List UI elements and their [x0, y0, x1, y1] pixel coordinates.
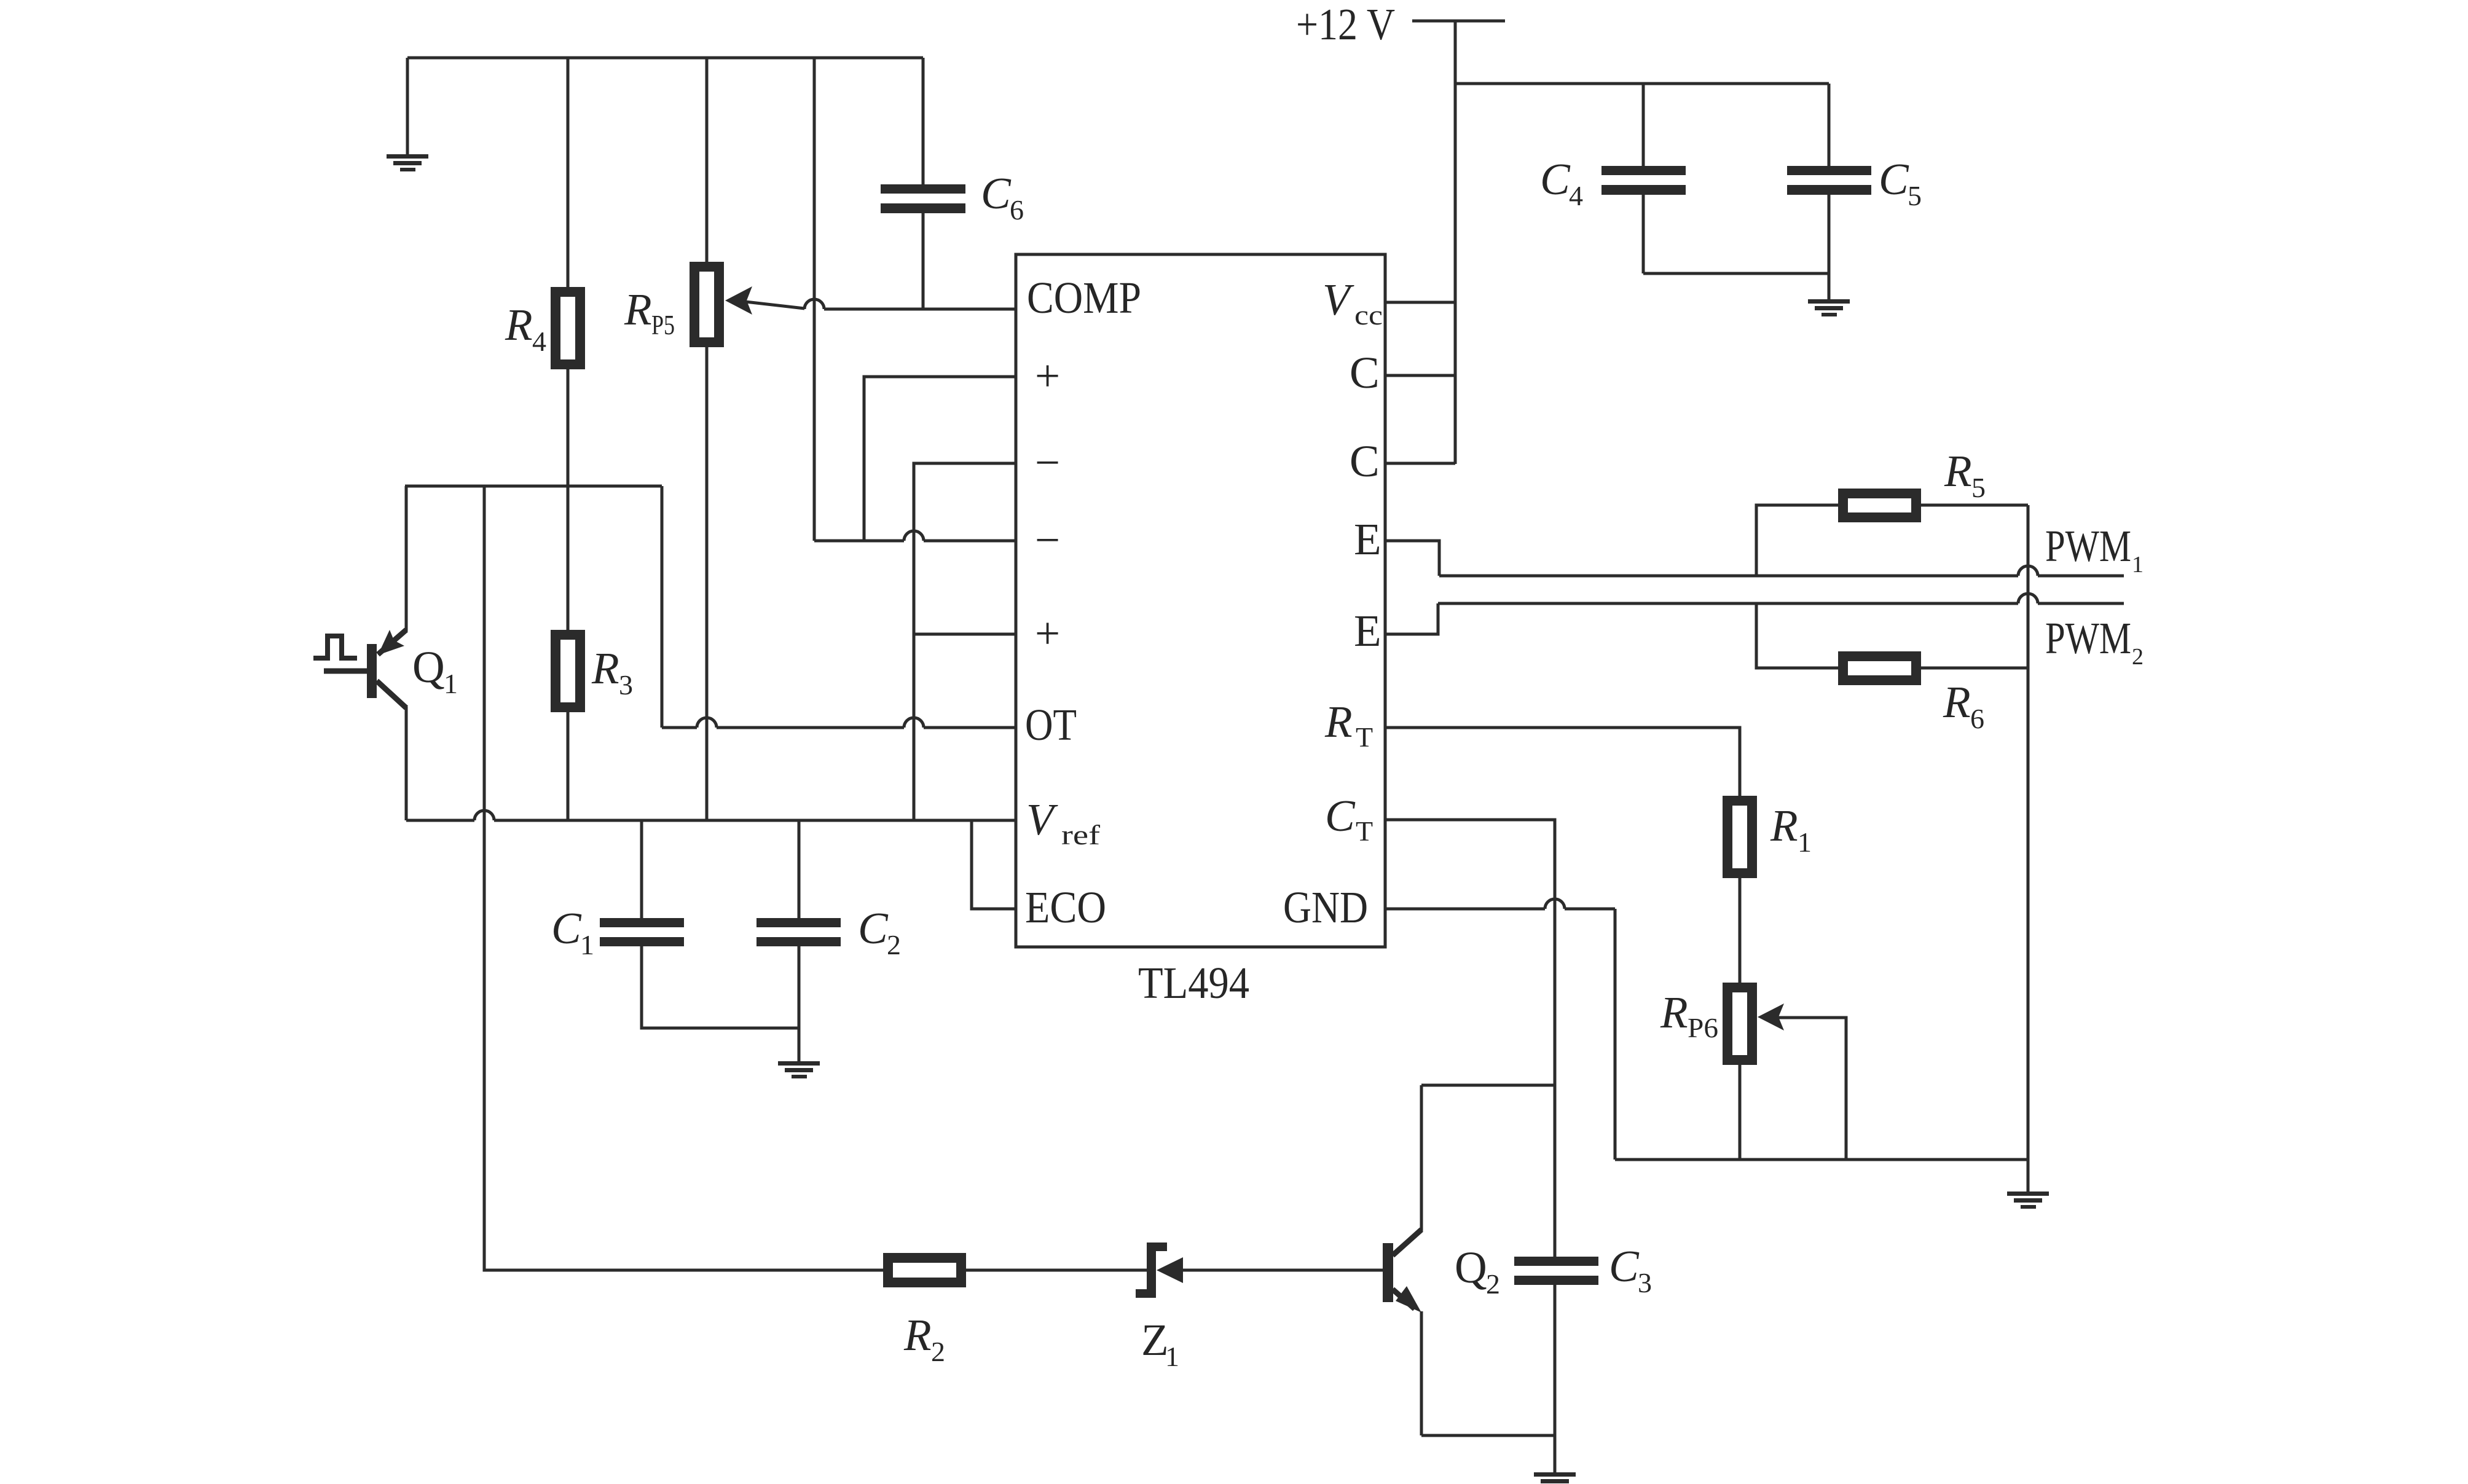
wire C4 top lead	[1642, 84, 1645, 166]
RP6 wiper arrow	[1758, 1003, 1784, 1031]
wire C pin stub (bottom)	[1385, 462, 1455, 465]
wire C1 top lead	[640, 820, 643, 918]
wire RT line to R1	[1385, 728, 1740, 796]
wire pin2 plus branch	[864, 377, 1016, 541]
wire Q2 collector rail	[1421, 1084, 1555, 1087]
capacitor C1	[600, 918, 684, 946]
wire CT line and vertical to C3	[1385, 820, 1555, 1257]
svg-text:C: C	[551, 903, 582, 953]
svg-text:C: C	[1879, 154, 1909, 204]
RP5 wiper arrow	[725, 286, 752, 315]
wire C5 top lead	[1828, 84, 1831, 166]
Q1 collector lead down to Vref bus	[405, 707, 408, 820]
wire R6 branch left vertical from PWM2	[1756, 603, 1838, 668]
ground (bottom-right)	[2007, 1192, 2049, 1209]
wire OT line with hops over RP5 and pin3 verticals	[662, 726, 697, 729]
potentiometer RP6	[1727, 987, 1752, 1060]
svg-text:R: R	[1943, 677, 1971, 727]
svg-text:1: 1	[2132, 552, 2144, 578]
wire RP6 wiper to ground rail	[1778, 1018, 1846, 1160]
wire RP6 bottom lead	[1739, 1060, 1742, 1160]
wire Z1 to Q2 base	[1183, 1269, 1383, 1272]
svg-text:T: T	[1356, 721, 1373, 753]
wire OT riser to wire A	[661, 486, 664, 728]
resistor R6	[1843, 656, 1916, 680]
svg-text:4: 4	[1569, 180, 1583, 211]
wire capacitor branch bottom	[1643, 272, 1829, 275]
wire R5 branch left vertical from PWM1	[1756, 505, 1838, 576]
wire R6 right lead	[1921, 667, 2028, 670]
pulse input symbol at Q1 base	[313, 636, 357, 658]
wire minus2 branch vertical (top bus to pin4)	[813, 58, 816, 541]
wire A horizontal	[405, 485, 662, 488]
+12 V supply terminal	[1412, 20, 1505, 23]
wire RP5 bottom lead to Vref bus	[705, 347, 709, 820]
svg-text:−: −	[1035, 438, 1060, 487]
resistor R1	[1727, 801, 1752, 873]
capacitor C4	[1601, 166, 1686, 195]
svg-text:2: 2	[931, 1336, 945, 1367]
wire top bus (ground bus upper-left)	[407, 57, 923, 60]
ground (below C3)	[1534, 1472, 1576, 1484]
svg-text:C: C	[1350, 436, 1380, 486]
svg-text:2: 2	[2132, 644, 2144, 670]
wire GND pin line with hop over CT vertical	[1385, 908, 1545, 911]
svg-text:V: V	[1322, 275, 1354, 324]
resistor R3	[556, 635, 580, 707]
wire R5R6 common vertical to ground rail	[2027, 505, 2030, 1160]
svg-text:PWM: PWM	[2045, 521, 2131, 571]
svg-text:PWM: PWM	[2045, 613, 2131, 663]
wire R1 to RP6	[1739, 878, 1742, 983]
wire RP5 top lead	[705, 58, 709, 262]
wire pin5 plus stub	[914, 633, 1016, 636]
wire C pin stub (top)	[1385, 374, 1455, 377]
svg-text:R: R	[624, 285, 652, 334]
wire E pin top to PWM1	[1385, 541, 1439, 576]
svg-text:COMP: COMP	[1027, 273, 1141, 323]
svg-text:+: +	[1035, 608, 1060, 658]
wire PWM1 line with hop over R5R6 vertical	[1439, 575, 2018, 578]
svg-text:3: 3	[619, 669, 633, 701]
transistor Q1 (PNP)	[324, 486, 406, 820]
svg-text:C: C	[1609, 1241, 1640, 1291]
Q1 emitter lead up to wire A	[405, 486, 408, 631]
svg-text:1: 1	[444, 668, 458, 699]
svg-text:5: 5	[1908, 180, 1922, 211]
capacitor C5	[1787, 166, 1871, 195]
wire COMP line with hop over minus2 vertical	[824, 308, 1016, 311]
svg-text:T: T	[1356, 815, 1373, 847]
wire C2 top lead	[798, 820, 801, 918]
wire GND drop vertical	[1614, 909, 1617, 1160]
svg-text:R: R	[591, 643, 619, 693]
svg-text:E: E	[1354, 606, 1381, 656]
wire C6 top lead	[922, 58, 925, 184]
resistor R4	[556, 292, 580, 364]
potentiometer RP5	[694, 267, 719, 342]
wire ECO branch from Vref bus	[972, 820, 1016, 909]
zener diode Z1	[1136, 1243, 1183, 1298]
svg-text:2: 2	[1486, 1268, 1500, 1300]
Q2 emitter arrowhead	[1396, 1286, 1421, 1313]
wire RP5 wiper to COMP line	[745, 302, 804, 308]
wire ground stem top-left	[406, 58, 409, 154]
Q2 collector slant	[1393, 1230, 1421, 1255]
svg-text:R: R	[903, 1310, 932, 1360]
wire C2 bottom lead to ground	[798, 946, 801, 1061]
wire C5 bottom lead to ground	[1828, 195, 1831, 299]
svg-text:3: 3	[1638, 1267, 1652, 1298]
svg-text:−: −	[1035, 515, 1060, 565]
wire pin3 minus branch vertical down to Vref bus	[914, 463, 1016, 820]
wire C6 bottom lead to COMP line	[922, 213, 925, 309]
capacitor C2	[757, 918, 841, 946]
svg-text:R: R	[1324, 697, 1353, 747]
ground (below C1 C2)	[778, 1061, 820, 1078]
svg-text:OT: OT	[1025, 700, 1077, 750]
transistor Q2 (NPN)	[1383, 1085, 1421, 1435]
wire PWM2 line with hop over R5R6 vertical	[1438, 602, 2018, 605]
svg-text:E: E	[1354, 514, 1381, 564]
Q1 emitter arrowhead	[378, 630, 404, 655]
Q1 base lead	[324, 669, 367, 674]
svg-text:6: 6	[1970, 703, 1984, 734]
ground (top-left)	[387, 154, 428, 171]
IC U1 TL494 box	[1016, 254, 1385, 947]
svg-text:+: +	[1035, 351, 1060, 401]
capacitor C3	[1514, 1257, 1598, 1285]
svg-text:TL494: TL494	[1138, 958, 1249, 1008]
svg-text:Q: Q	[1455, 1243, 1487, 1292]
wire C4 bottom lead	[1642, 195, 1645, 273]
svg-text:1: 1	[1165, 1341, 1179, 1372]
svg-text:P5: P5	[651, 309, 675, 340]
svg-text:GND: GND	[1283, 882, 1368, 932]
Q2 emitter lead down	[1420, 1311, 1423, 1435]
wire Q2 emitter rail	[1421, 1434, 1555, 1437]
wire C1 bottom lead to common	[642, 946, 799, 1028]
svg-text:C: C	[1325, 791, 1356, 841]
svg-text:R: R	[1660, 987, 1688, 1037]
wire R2 feed vertical from wire A down to R2 line	[484, 486, 883, 1270]
wire C3 bottom lead	[1554, 1285, 1557, 1472]
wire R3 bottom lead to Vref bus	[567, 712, 570, 820]
svg-text:+12 V: +12 V	[1296, 0, 1395, 49]
wire capacitor branch top	[1455, 82, 1829, 85]
svg-text:P6: P6	[1688, 1012, 1718, 1043]
wire ground stem bottom-right	[2027, 1160, 2030, 1192]
svg-text:Q: Q	[412, 642, 445, 692]
wire R2 to Z1	[966, 1269, 1147, 1272]
svg-text:6: 6	[1010, 194, 1024, 226]
Q1 base bar	[367, 644, 377, 698]
svg-text:1: 1	[1798, 826, 1812, 858]
wire R4 top lead	[567, 58, 570, 287]
Q1 emitter slant	[378, 630, 406, 654]
svg-text:C: C	[1540, 154, 1571, 204]
wire E pin bottom to PWM2	[1385, 603, 1438, 634]
wire R4 to wire A and R3	[567, 369, 570, 630]
svg-text:cc: cc	[1354, 299, 1383, 331]
wire Vref bus with hop over R2 feed	[406, 819, 474, 822]
svg-text:C: C	[1350, 348, 1380, 398]
wire R5 right lead	[1921, 504, 2028, 507]
svg-text:R: R	[505, 300, 533, 350]
svg-text:4: 4	[532, 326, 546, 357]
wire pin4 minus line with hop over pin3 vertical	[814, 540, 904, 543]
ground (below C5)	[1808, 299, 1850, 316]
wire Vcc stub	[1385, 301, 1455, 304]
resistor R2	[888, 1258, 961, 1282]
svg-text:2: 2	[887, 929, 901, 960]
wire bottom ground rail	[1615, 1158, 2028, 1161]
svg-text:V: V	[1026, 795, 1058, 844]
svg-text:ECO: ECO	[1025, 882, 1106, 932]
svg-text:ref: ref	[1061, 819, 1101, 850]
Q2 base bar	[1383, 1243, 1393, 1302]
svg-text:R: R	[1944, 446, 1972, 496]
Q1 collector slant	[377, 681, 406, 708]
wire +12V vertical rail	[1454, 21, 1457, 464]
Q2 collector lead up	[1420, 1085, 1423, 1231]
svg-text:C: C	[858, 903, 889, 953]
svg-text:Z: Z	[1141, 1315, 1169, 1365]
svg-text:R: R	[1770, 801, 1798, 850]
svg-text:C: C	[981, 168, 1012, 218]
svg-text:1: 1	[580, 929, 594, 960]
Q2 emitter slant	[1393, 1289, 1415, 1309]
svg-text:5: 5	[1971, 472, 1986, 503]
resistor R5	[1843, 493, 1916, 517]
capacitor C6	[881, 184, 965, 213]
